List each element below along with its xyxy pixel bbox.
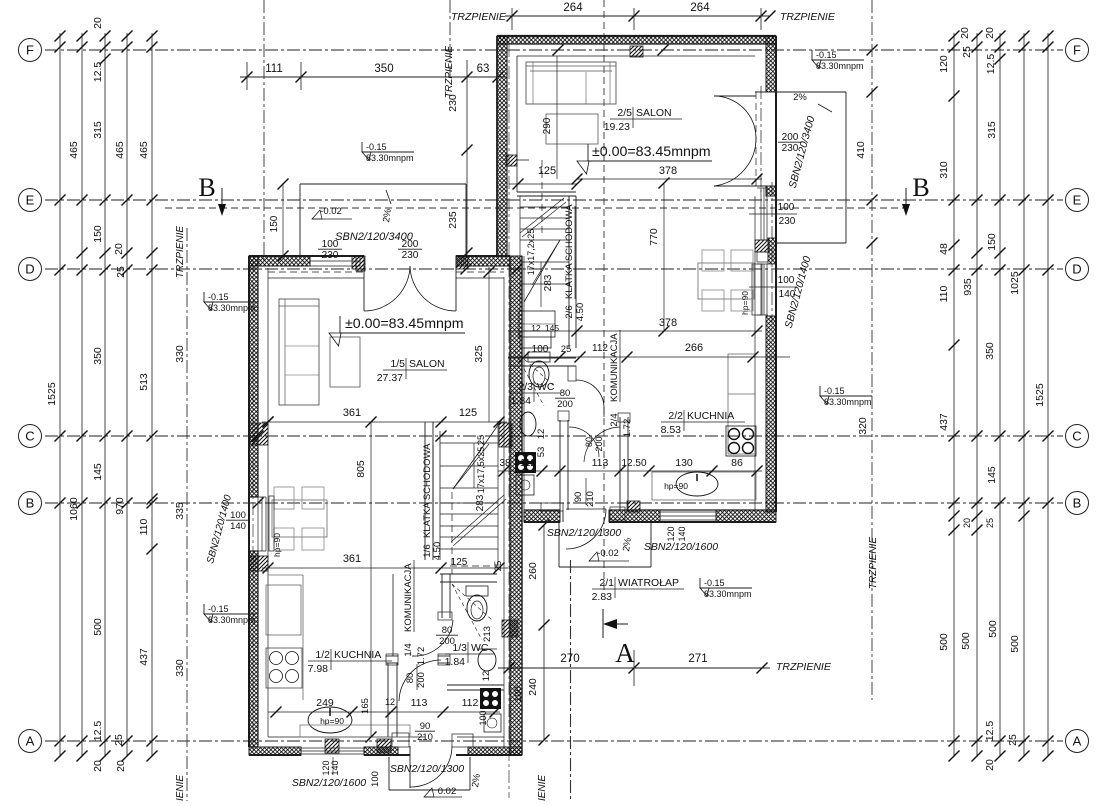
grid line D (45, 268, 1063, 270)
svg-text:12: 12 (531, 323, 541, 333)
svg-text:20: 20 (984, 759, 996, 771)
svg-text:112: 112 (520, 458, 536, 469)
right unit 125 dim line (509, 183, 577, 185)
svg-text:465: 465 (114, 141, 126, 159)
right unit dim line y357 (508, 356, 790, 358)
svg-text:130: 130 (675, 457, 693, 469)
grid bubble A left (19, 730, 42, 753)
svg-text:1.72: 1.72 (416, 647, 427, 666)
grid bubble F left (19, 39, 42, 62)
svg-text:235: 235 (447, 211, 459, 229)
right wall axis dash-dot (771, 182, 773, 322)
right unit komunikacja-kuchnia wall (619, 417, 621, 510)
trzpienie line x=187 (186, 228, 188, 801)
svg-text:1/4: 1/4 (403, 643, 414, 656)
svg-text:513: 513 (138, 373, 150, 391)
svg-text:25: 25 (113, 734, 125, 746)
right unit dining chairs (702, 250, 724, 271)
column block bottom wall b (377, 739, 391, 753)
grid line C (45, 435, 1063, 437)
svg-text:330: 330 (174, 345, 186, 363)
svg-text:935: 935 (962, 278, 974, 296)
svg-text:805: 805 (355, 460, 367, 478)
left unit entrance door (409, 746, 411, 788)
right unit dim line y331 (508, 330, 762, 332)
party wall axis dash-dot (508, 44, 510, 798)
svg-text:1525: 1525 (1034, 383, 1046, 407)
svg-text:WIATROŁAP: WIATROŁAP (618, 577, 679, 589)
left unit double entry door (363, 266, 365, 311)
svg-text:271: 271 (688, 653, 707, 665)
svg-text:KOMUNIKACJA: KOMUNIKACJA (609, 333, 620, 402)
svg-text:378: 378 (659, 165, 677, 177)
svg-text:100: 100 (230, 510, 246, 521)
top dim vertical extension x467 (466, 60, 468, 255)
right unit coffee table (546, 114, 598, 144)
top dim extension x247 x301 (246, 62, 248, 90)
svg-text:19.23: 19.23 (604, 121, 630, 133)
svg-text:25: 25 (561, 344, 572, 355)
svg-text:266: 266 (685, 342, 703, 354)
wiatrolap east jamb pier (610, 507, 625, 520)
svg-text:145: 145 (986, 466, 998, 484)
svg-text:230: 230 (322, 250, 339, 261)
grid line F (45, 49, 1063, 51)
svg-text:A: A (615, 638, 635, 668)
right unit top wall inner face line (517, 55, 755, 57)
right dimension ticks (949, 31, 960, 42)
svg-text:4.50: 4.50 (432, 542, 443, 561)
right unit bottom wall hatched (524, 510, 560, 522)
right wall column block y240 (755, 240, 769, 252)
svg-text:200: 200 (439, 636, 455, 647)
grid bubble B right (1066, 492, 1089, 515)
right wall inner face line (754, 196, 756, 512)
svg-text:25: 25 (476, 435, 487, 446)
party wall finish lines (503, 277, 505, 747)
left unit understair wall (440, 573, 497, 575)
svg-text:100: 100 (778, 202, 795, 213)
svg-text:240: 240 (527, 678, 539, 696)
svg-text:1025: 1025 (1009, 271, 1021, 295)
svg-text:8.53: 8.53 (661, 424, 682, 436)
left unit kitchen sink oval (308, 707, 352, 733)
svg-text:20: 20 (92, 17, 104, 29)
section line A-A dashed upper part (603, 0, 605, 590)
section line B-B dashed (165, 207, 905, 209)
right unit stair top wall (517, 191, 576, 193)
svg-text:TRZPIENIE: TRZPIENIE (451, 11, 507, 23)
svg-text:83.30mnpm: 83.30mnpm (208, 303, 256, 313)
left unit wc toilet (466, 586, 488, 596)
grid bubble E left (19, 189, 42, 212)
right unit dim line y471 (498, 470, 762, 472)
svg-text:100: 100 (478, 710, 488, 725)
left wall axis dash-dot (252, 260, 254, 750)
svg-text:D: D (25, 262, 34, 277)
svg-text:63: 63 (477, 63, 490, 75)
svg-text:120: 120 (938, 55, 950, 73)
svg-text:SBN2/120/3400: SBN2/120/3400 (335, 231, 414, 243)
svg-text:2%: 2% (381, 208, 394, 224)
svg-text:1/2: 1/2 (315, 649, 330, 661)
svg-text:WC: WC (471, 642, 489, 654)
right unit corridor door2 arc (569, 427, 599, 457)
svg-text:465: 465 (68, 141, 80, 159)
column block tick line (517, 159, 529, 161)
svg-text:1.84: 1.84 (511, 395, 532, 407)
svg-text:D: D (1072, 262, 1081, 277)
svg-text:200: 200 (594, 436, 604, 451)
left unit stair strip wall vertical (424, 422, 426, 560)
right unit stairs dashed под (541, 160, 543, 235)
svg-text:2/2: 2/2 (668, 410, 683, 422)
top dim line 111-350-63 (240, 76, 505, 78)
left unit vertical dim 325 (488, 267, 490, 422)
svg-text:310: 310 (938, 161, 950, 179)
right dimension lines (953, 33, 955, 757)
right unit komunikacja top wall (508, 357, 576, 359)
column block left wall y558 (249, 556, 268, 571)
svg-text:83.30mnpm: 83.30mnpm (366, 153, 414, 163)
svg-text:-0.02: -0.02 (597, 548, 619, 559)
right unit sofa (526, 62, 616, 104)
trzpienie line x=264 (263, 0, 265, 262)
svg-text:145: 145 (92, 463, 104, 481)
svg-text:2/3: 2/3 (518, 381, 533, 393)
left unit dining table (272, 500, 327, 537)
svg-text:17x17,5x25: 17x17,5x25 (476, 447, 486, 494)
svg-text:WC: WC (537, 381, 555, 393)
right unit top wall hatched (497, 36, 776, 44)
svg-text:A: A (26, 734, 35, 749)
svg-text:200: 200 (782, 132, 799, 143)
svg-text:500: 500 (938, 633, 950, 651)
svg-text:361: 361 (343, 407, 361, 419)
trzpienie line x=872 (871, 0, 873, 700)
left unit stairs dashed под (451, 492, 453, 574)
right unit wc toilet (528, 352, 550, 362)
right wall hatch segment lower (766, 316, 776, 512)
left top wall window pier block (356, 256, 365, 271)
svg-text:264: 264 (690, 2, 710, 14)
left unit sofa (279, 299, 319, 405)
svg-text:20: 20 (92, 760, 104, 772)
svg-text:210: 210 (417, 732, 433, 743)
svg-text:SALON: SALON (409, 358, 445, 370)
svg-text:970: 970 (114, 497, 126, 515)
svg-text:KLATKA SCHODOWA: KLATKA SCHODOWA (564, 204, 575, 299)
svg-text:E: E (26, 193, 35, 208)
svg-text:KUCHNIA: KUCHNIA (687, 410, 734, 422)
right unit stairs treads (520, 206, 569, 208)
right unit kitchen sink oval (676, 472, 718, 496)
svg-text:320: 320 (857, 417, 869, 435)
right unit kitchen counter bottom (652, 472, 756, 500)
left unit kitchen north wall with door (386, 655, 398, 657)
svg-text:TRZPIENIE: TRZPIENIE (776, 661, 832, 673)
svg-text:500: 500 (960, 632, 972, 650)
right unit dining table (698, 263, 754, 299)
svg-text:165: 165 (360, 698, 371, 714)
bottom right porch outline (558, 522, 560, 567)
left unit dim 125 y415 ticks (433, 414, 497, 416)
svg-text:12.5: 12.5 (985, 54, 997, 75)
right wall segment between door and window (766, 186, 776, 196)
svg-text:12: 12 (385, 697, 395, 707)
svg-text:437: 437 (138, 648, 150, 666)
wiatrolap west jamb pier (541, 503, 563, 511)
svg-text:465: 465 (138, 141, 150, 159)
svg-text:TRZPIENIE: TRZPIENIE (175, 226, 186, 279)
svg-text:90: 90 (573, 492, 584, 503)
svg-text:264: 264 (563, 2, 583, 14)
svg-text:4.50: 4.50 (575, 303, 586, 322)
left unit dim y712 (268, 711, 500, 713)
svg-text:12: 12 (481, 671, 492, 682)
svg-text:hp=90: hp=90 (320, 716, 344, 726)
svg-text:113: 113 (411, 697, 428, 709)
svg-text:270: 270 (560, 653, 579, 665)
right unit closet under stairs (519, 311, 555, 337)
grid line B (45, 502, 1063, 504)
left unit stairs landing dashed (450, 565, 497, 567)
svg-text:330: 330 (174, 659, 186, 677)
svg-text:140: 140 (677, 526, 687, 541)
svg-text:±0.00=83.45mnpm: ±0.00=83.45mnpm (592, 144, 711, 160)
right unit wc counter (520, 331, 551, 348)
svg-text:SBN2/120/1300: SBN2/120/1300 (547, 527, 621, 539)
party wall hatched (510, 256, 522, 755)
svg-text:350: 350 (374, 63, 393, 75)
left unit inner bottom face (268, 736, 425, 738)
svg-text:SBN2/120/1300: SBN2/120/1300 (390, 763, 464, 775)
svg-text:-0.15: -0.15 (208, 604, 229, 614)
svg-text:140: 140 (230, 521, 246, 532)
left unit dim line y568 361 (262, 567, 508, 569)
svg-text:100: 100 (778, 275, 795, 286)
column block on party wall y152 (506, 155, 517, 166)
right unit 290 dim (556, 56, 558, 179)
top dim line 264-264 (505, 15, 770, 17)
svg-text:20: 20 (959, 27, 971, 39)
svg-text:TRZPIENIE: TRZPIENIE (780, 11, 836, 23)
svg-text:12.5: 12.5 (92, 721, 104, 742)
right wall window1 label 100/230 (749, 213, 797, 215)
left unit top wall hatched (249, 256, 310, 266)
svg-text:KOMUNIKACJA: KOMUNIKACJA (403, 563, 414, 632)
svg-text:150: 150 (92, 225, 104, 243)
left unit wc dashed diagonals (452, 584, 482, 640)
svg-text:25: 25 (961, 46, 973, 58)
left unit wc door arc (412, 620, 453, 656)
svg-text:200: 200 (416, 672, 427, 688)
column block left wall C (249, 423, 268, 445)
svg-text:25: 25 (985, 518, 995, 528)
right wall window2 frame (760, 264, 762, 315)
right unit dim line y179 (577, 178, 762, 180)
bottom dim 240 vertical (543, 625, 545, 740)
right unit stair strip wall vertical (568, 196, 570, 348)
wiatrolap entry door (562, 510, 564, 522)
svg-text:113: 113 (592, 457, 609, 469)
left unit kitchen east face line (392, 574, 394, 656)
svg-text:-0.15: -0.15 (208, 292, 229, 302)
left unit hob black (480, 688, 501, 709)
grid bubble B left (19, 492, 42, 515)
svg-text:38: 38 (499, 458, 511, 469)
left unit coffee table (330, 337, 360, 387)
svg-text:770: 770 (648, 228, 660, 246)
svg-text:230: 230 (447, 94, 459, 112)
svg-text:2/1: 2/1 (599, 577, 614, 589)
right unit sink square (516, 475, 534, 495)
svg-text:80: 80 (442, 625, 453, 636)
svg-text:1/5: 1/5 (390, 358, 405, 370)
svg-text:80: 80 (560, 388, 571, 399)
svg-text:-0.15: -0.15 (366, 142, 387, 152)
bottom dim line 270-271 (498, 667, 770, 669)
svg-text:283: 283 (543, 274, 554, 291)
svg-text:-0.15: -0.15 (704, 578, 725, 588)
left unit sink square (484, 714, 501, 732)
svg-text:100: 100 (513, 686, 524, 702)
svg-text:350: 350 (92, 347, 104, 365)
svg-text:-0.02: -0.02 (320, 206, 342, 217)
top terrace outline (300, 183, 466, 185)
svg-text:125: 125 (538, 165, 556, 177)
left dimension lines (59, 33, 61, 757)
balcony door opening jambs (755, 91, 776, 93)
left unit dim line y422 (262, 421, 507, 423)
svg-text:20: 20 (115, 760, 127, 772)
right terrace outline (777, 91, 846, 93)
svg-text:20: 20 (984, 27, 996, 39)
column block bottom wall a (325, 739, 339, 753)
right wall pier below block (757, 252, 768, 262)
svg-text:0.02: 0.02 (438, 786, 457, 797)
left unit left wall hatched lower (249, 551, 258, 747)
svg-text:325: 325 (473, 345, 485, 363)
left wall inner face line (267, 268, 269, 737)
svg-text:83.30mnpm: 83.30mnpm (704, 589, 752, 599)
left unit hob (266, 648, 302, 688)
left unit top wall inner lines (268, 277, 364, 279)
svg-text:2%: 2% (793, 92, 807, 103)
column block party wall y621 (502, 620, 518, 637)
grid bubble D right (1066, 258, 1089, 281)
svg-text:TRZPIENIE: TRZPIENIE (537, 775, 548, 801)
svg-text:B: B (1073, 496, 1082, 511)
svg-text:2/5: 2/5 (617, 107, 632, 119)
svg-text:48: 48 (938, 243, 950, 255)
svg-text:F: F (26, 43, 34, 58)
right unit stairs diagonals (524, 240, 560, 302)
svg-text:1060: 1060 (68, 497, 80, 521)
extra grid ticks at walls (253, 431, 264, 442)
svg-text:-0.15: -0.15 (816, 50, 837, 60)
svg-text:110: 110 (138, 518, 150, 535)
svg-text:SALON: SALON (636, 107, 672, 119)
svg-text:230: 230 (779, 216, 796, 227)
top terrace 150 dim (282, 184, 284, 256)
svg-text:111: 111 (265, 63, 282, 75)
svg-text:25: 25 (115, 266, 127, 278)
svg-text:12: 12 (536, 429, 547, 440)
right unit kuchnia door arc (584, 427, 620, 462)
svg-text:112: 112 (462, 697, 479, 709)
svg-text:249: 249 (316, 697, 334, 709)
left unit stairs treads (440, 442, 498, 444)
svg-text:20: 20 (962, 518, 972, 528)
svg-text:500: 500 (92, 618, 104, 636)
svg-text:SBN2/120/1600: SBN2/120/1600 (292, 777, 366, 789)
svg-text:260: 260 (527, 562, 539, 580)
svg-text:12.5: 12.5 (92, 62, 104, 83)
svg-text:410: 410 (855, 141, 867, 159)
grid bubble A right (1066, 730, 1089, 753)
right wall window1 frame (760, 188, 762, 240)
left unit wc sink (478, 649, 496, 671)
svg-text:1.72: 1.72 (622, 419, 633, 438)
left unit dining chairs (274, 487, 294, 509)
left unit kitchen door arc (399, 660, 441, 701)
svg-text:145: 145 (545, 323, 559, 333)
svg-text:86: 86 (731, 457, 743, 469)
svg-text:TRZPIENIE: TRZPIENIE (175, 775, 186, 801)
svg-text:500: 500 (1009, 635, 1021, 653)
svg-text:335: 335 (174, 502, 186, 520)
bottom dim 260 vertical (543, 525, 545, 625)
svg-text:230: 230 (402, 250, 419, 261)
svg-text:hp=90: hp=90 (664, 481, 688, 491)
svg-text:210: 210 (585, 491, 596, 507)
svg-text:283: 283 (475, 494, 486, 511)
svg-text:25: 25 (1007, 734, 1019, 746)
left unit stairs diagonals (453, 418, 503, 489)
svg-text:140: 140 (330, 760, 340, 775)
balcony double door leaves and arcs (714, 95, 756, 97)
svg-text:315: 315 (92, 121, 104, 139)
svg-text:±0.00=83.45mnpm: ±0.00=83.45mnpm (345, 316, 464, 332)
right unit vertical dim 770 (663, 183, 665, 331)
balcony opening projection dashed (755, 92, 757, 186)
svg-text:110: 110 (938, 285, 950, 302)
left unit stairs break line (451, 495, 504, 542)
right unit salon-komunikacja door arc (576, 380, 604, 409)
svg-text:25: 25 (493, 561, 504, 572)
svg-text:B: B (912, 173, 929, 202)
right unit left wall upper hatched (497, 36, 507, 256)
svg-text:90: 90 (420, 721, 431, 732)
right unit wc sink (520, 412, 536, 436)
left unit vertical dim 805 (370, 422, 372, 737)
svg-text:213: 213 (482, 626, 493, 642)
svg-text:27.37: 27.37 (377, 372, 403, 384)
svg-text:hp=90: hp=90 (272, 533, 282, 557)
right unit stairs break line (520, 198, 564, 233)
section line A-A dash-dot vertical (570, 560, 572, 801)
left unit bottom wall hatched (249, 747, 301, 755)
left unit vestibule west wall (387, 663, 389, 737)
grid bubble F right (1066, 39, 1089, 62)
right unit right wall hatch segment top (766, 36, 776, 92)
svg-text:KLATKA SCHODOWA: KLATKA SCHODOWA (422, 443, 433, 538)
svg-text:KUCHNIA: KUCHNIA (334, 649, 381, 661)
svg-text:20: 20 (113, 243, 125, 255)
svg-text:A: A (1073, 734, 1082, 749)
right terrace 410 dim (867, 87, 878, 98)
